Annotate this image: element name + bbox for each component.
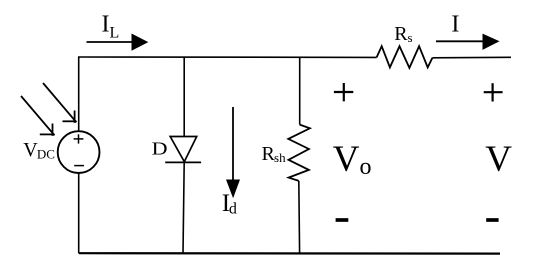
label plus Vo <box>334 83 353 101</box>
diode D triangle <box>170 137 197 162</box>
source minus <box>74 165 84 167</box>
svg-text:D: D <box>152 140 168 159</box>
source VDC circle <box>58 131 100 173</box>
diode branch top wire <box>183 57 185 137</box>
diode cathode bar <box>165 161 201 163</box>
Id current arrow <box>226 107 240 198</box>
resistor Rs <box>377 46 433 68</box>
label D <box>152 140 168 159</box>
Rsh branch top wire <box>299 57 301 125</box>
label minus Vo <box>336 218 349 222</box>
label plus V <box>484 83 503 101</box>
diode branch bottom wire <box>183 162 184 253</box>
svg-text:V: V <box>485 139 512 180</box>
wire top rail <box>78 56 377 58</box>
I current arrow <box>436 34 500 50</box>
wire top right <box>432 56 511 59</box>
svg-text:I: I <box>451 11 459 37</box>
light arrow 2 <box>43 83 77 123</box>
label minus V <box>486 218 498 222</box>
left wire top <box>78 57 80 132</box>
source plus <box>74 134 84 143</box>
resistor Rsh <box>288 125 310 181</box>
light arrow 1 <box>21 96 55 136</box>
Rsh branch bottom wire <box>298 181 301 253</box>
bottom rail <box>79 252 500 255</box>
left wire bottom <box>78 173 80 253</box>
IL current arrow <box>87 34 149 51</box>
